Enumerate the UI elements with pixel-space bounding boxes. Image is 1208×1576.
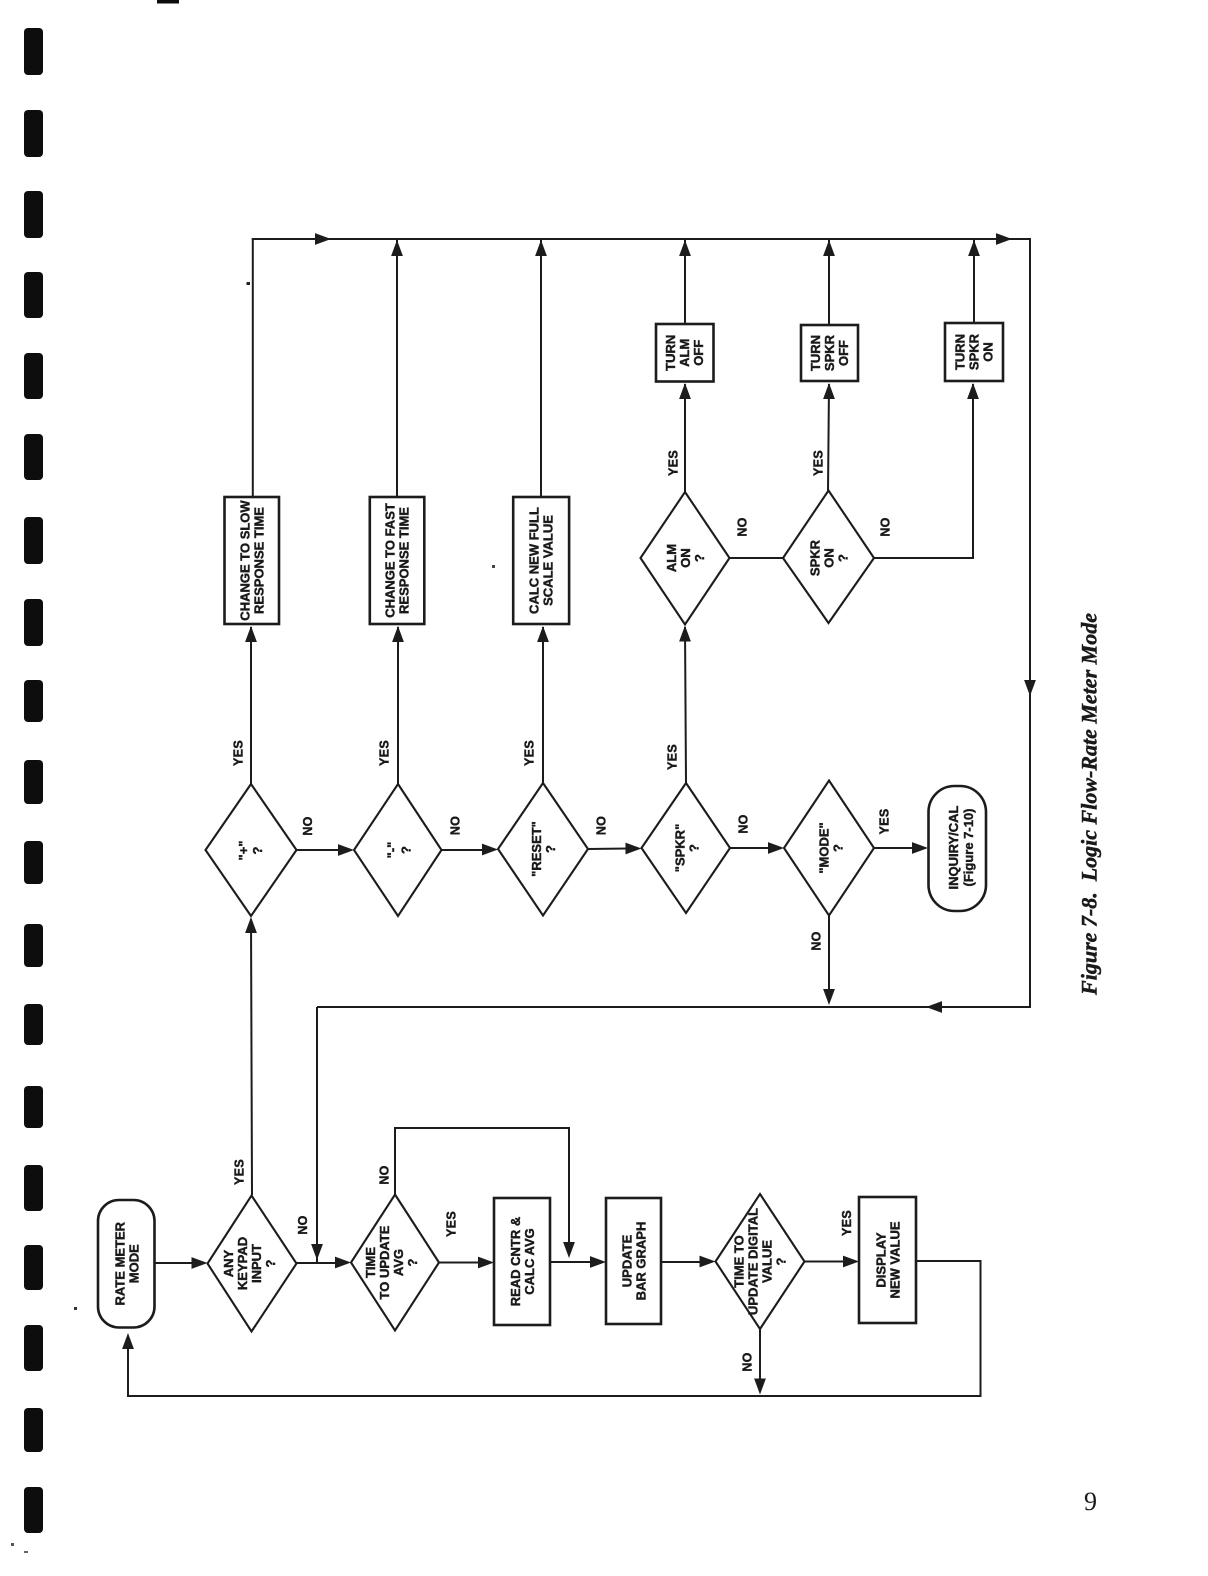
wire: YES from "+" diamond to CHANGE TO SLOW box [250,627,252,784]
label YES (minus diamond) [378,740,392,766]
svg-text:OFF: OFF [836,340,851,366]
svg-text:READ CNTR &: READ CNTR & [508,1217,523,1307]
svg-text:TO UPDATE: TO UPDATE [377,1225,392,1299]
svg-text:YES: YES [666,744,680,770]
svg-text:?: ? [399,846,414,854]
label NO (any keypad) [296,1215,310,1234]
svg-text:TURN: TURN [953,334,968,370]
process box CHANGE TO FAST RESPONSE TIME [370,497,425,624]
svg-text:RATE METER: RATE METER [113,1221,128,1305]
terminator INQUIRY/CAL (Figure 7-10) [929,786,987,911]
wire: YES from SPKR diamond up to ALM ON diamond [685,627,686,783]
svg-text:ANY: ANY [221,1249,236,1277]
wire: YES from SPKR ON diamond to TURN SPKR OFF box [828,384,829,492]
svg-text:TURN: TURN [808,335,823,371]
label NO (mode diamond) [810,931,824,950]
svg-text:YES: YES [523,740,537,766]
svg-text:RESPONSE TIME: RESPONSE TIME [251,507,266,614]
svg-text:OFF: OFF [691,340,706,366]
svg-text:SPKR: SPKR [808,539,823,576]
arrowhead up into ALM ON diamond [679,626,691,642]
svg-text:CALC AVG: CALC AVG [522,1228,537,1294]
wire: NO from SPKR ON diamond right then up to TURN SPKR ON box [874,384,973,558]
arrowhead up into "+" diamond [245,917,257,933]
arrowhead right into SPKR diamond [626,843,642,855]
svg-text:9: 9 [1084,1487,1097,1516]
arrowhead right into TIME TO UPDATE DIGITAL VALUE [700,1256,716,1268]
svg-text:INQUIRY/CAL: INQUIRY/CAL [946,805,961,889]
arrowhead up into top collector from CALC box [535,240,547,256]
arrowhead right into DISPLAY NEW VALUE [843,1256,859,1268]
process box UPDATE BAR GRAPH [606,1198,661,1324]
svg-text:?: ? [687,844,702,852]
arrowhead down at keypad-no junction [311,1244,323,1260]
svg-text:INPUT: INPUT [249,1244,264,1283]
arrowhead right into UPDATE BAR GRAPH [590,1256,606,1268]
svg-text:YES: YES [840,1210,854,1236]
wire: NO from ANY KEYPAD diamond to TIME TO UPDATE AVG diamond [297,1262,338,1264]
decision diamond "MODE"? [784,781,874,916]
svg-text:NO: NO [296,1215,310,1234]
wire: CHANGE TO SLOW box top to top collector [252,238,254,497]
scan speck left of RATE METER MODE [74,1307,77,1310]
arrowhead right into RESET diamond [482,844,498,856]
label NO (alm on diamond) [736,517,750,536]
svg-text:"+": "+" [236,841,251,861]
svg-text:"-": "-" [385,842,400,859]
label NO (spkr on diamond) [879,517,893,536]
svg-text:CALC NEW FULL: CALC NEW FULL [527,507,542,614]
arrowhead up into top collector from FAST box [391,240,403,256]
svg-text:Figure 7-8. Logic Flow-Rate M: Figure 7-8. Logic Flow-Rate Meter Mode [1077,613,1102,996]
wire: YES from TIME TO UPDATE AVG to READ CNTR box [439,1262,480,1264]
svg-text:NO: NO [595,816,609,835]
svg-text:NO: NO [378,1165,392,1184]
wire: NO from "+" diamond to "-" diamond [297,849,341,851]
svg-text:"SPKR": "SPKR" [673,824,688,872]
svg-text:CHANGE TO FAST: CHANGE TO FAST [383,503,398,618]
svg-text:SPKR: SPKR [967,333,982,370]
label NO (spkr diamond) [737,814,751,833]
svg-text:MODE: MODE [127,1244,142,1283]
wire: YES from ALM ON diamond to TURN ALM OFF box [684,384,686,492]
svg-text:?: ? [836,554,851,562]
arrowhead right into TIME TO UPDATE AVG [335,1257,351,1269]
svg-text:?: ? [692,554,707,562]
svg-text:NEW VALUE: NEW VALUE [888,1221,903,1298]
terminator RATE METER MODE [98,1200,155,1328]
svg-text:NO: NO [449,816,463,835]
arrowhead down into lower collector [823,989,835,1005]
arrowhead left on lower collector [926,1001,942,1013]
svg-text:?: ? [405,1258,420,1266]
wire: READ CNTR box to UPDATE BAR GRAPH box [550,1261,592,1263]
wire: YES from "-" diamond to CHANGE TO FAST box [397,627,399,784]
wire: NO from SPKR diamond to MODE diamond [730,847,770,849]
svg-text:YES: YES [445,1211,459,1237]
svg-text:UPDATE: UPDATE [620,1234,635,1287]
svg-text:KEYPAD: KEYPAD [235,1237,250,1290]
label YES (reset diamond) [523,740,537,766]
caption Figure 7-8. Logic Flow-Rate Meter Mode [1077,613,1102,996]
svg-text:TIME TO: TIME TO [732,1235,747,1287]
wire: YES from MODE diamond to INQUIRY/CAL [874,847,914,849]
wire: TURN ALM OFF box top to top collector [684,240,686,324]
wire: YES from RESET diamond to CALC box [542,627,544,783]
arrowhead up into top collector from TURN ALM OFF [679,240,691,256]
scan specks bottom left [11,1543,14,1546]
label YES (time to update digital value) [840,1210,854,1236]
arrowhead right into "-" diamond [338,844,354,856]
arrowhead right into READ CNTR box [478,1257,494,1269]
arrowhead up into RATE METER MODE bottom [122,1333,134,1349]
scan mark top edge [157,0,179,4]
process box TURN SPKR OFF [801,325,858,381]
wire: return from DISPLAY NEW VALUE right, down, left along bottom, up into RATE METER MODE [128,1261,981,1396]
label NO (time to update avg) [378,1165,392,1184]
wire: NO from ALM ON diamond to SPKR ON diamond [730,557,784,559]
label NO (plus diamond) [301,816,315,835]
decision diamond SPKR ON? [783,491,874,624]
svg-text:TIME: TIME [363,1247,378,1278]
arrowhead right into ANY KEYPAD diamond [192,1257,208,1269]
decision diamond TIME TO UPDATE DIGITAL VALUE? [716,1194,805,1329]
svg-text:CHANGE TO SLOW: CHANGE TO SLOW [237,500,252,621]
svg-text:RESPONSE TIME: RESPONSE TIME [397,507,412,614]
wire: UPDATE BAR GRAPH to TIME TO UPDATE DIGITAL VALUE diamond [661,1261,702,1263]
svg-text:ALM: ALM [664,544,679,572]
svg-text:YES: YES [233,1159,247,1185]
process box CALC NEW FULL SCALE VALUE [513,497,569,624]
process box CHANGE TO SLOW RESPONSE TIME [225,497,280,624]
label YES (spkr on diamond) [812,450,826,476]
svg-text:YES: YES [232,740,246,766]
svg-text:YES: YES [878,809,892,835]
svg-text:?: ? [543,845,558,853]
svg-text:YES: YES [378,740,392,766]
arrowhead right into MODE diamond [768,842,784,854]
label NO (minus diamond) [449,816,463,835]
decision diamond ANY KEYPAD INPUT? [208,1196,297,1332]
label YES (time to update avg) [445,1211,459,1237]
arrowhead right into INQUIRY/CAL [912,842,928,854]
svg-text:"MODE": "MODE" [817,822,832,873]
svg-text:BAR GRAPH: BAR GRAPH [634,1222,649,1301]
svg-text:(Figure 7-10): (Figure 7-10) [961,808,976,886]
svg-text:NO: NO [879,517,893,536]
process box TURN ALM OFF [656,324,714,382]
svg-text:?: ? [831,844,846,852]
svg-text:SCALE VALUE: SCALE VALUE [541,515,556,606]
svg-text:ON: ON [678,548,693,568]
decision diamond TIME TO UPDATE AVG? [351,1195,439,1331]
wire: TURN SPKR OFF box top to top collector [828,240,830,325]
wire: NO from TIME TO UPDATE DIGITAL VALUE down to return line [759,1329,761,1382]
label NO (reset diamond) [595,816,609,835]
svg-text:SPKR: SPKR [822,334,837,371]
process box READ CNTR & CALC AVG [494,1198,550,1325]
svg-text:NO: NO [736,517,750,536]
wire: descender from lower collector to keypad-no junction [316,1007,318,1262]
wire: lower collector horizontal line [317,1006,1030,1008]
arrowhead right on top collector (right end) [996,233,1012,245]
wire: NO loop from TIME TO UPDATE AVG over READ CNTR box [395,1128,569,1245]
decision diamond "+"? [206,784,297,916]
svg-text:ALM: ALM [677,339,692,367]
svg-text:?: ? [774,1257,789,1265]
arrowhead up into TURN SPKR ON box [967,383,979,399]
svg-text:NO: NO [810,931,824,950]
arrowhead down into line before UPDATE BAR GRAPH [563,1242,575,1258]
decision diamond "-"? [354,784,442,916]
arrowhead up into CHANGE TO SLOW box [245,626,257,642]
wire: RATE METER MODE to ANY KEYPAD diamond [155,1262,195,1264]
arrowhead up into top collector from TURN SPKR OFF [823,240,835,256]
svg-text:TURN: TURN [663,335,678,371]
svg-text:YES: YES [812,450,826,476]
binder hole marks column [24,28,43,1533]
process box DISPLAY NEW VALUE [859,1197,916,1323]
wire: CHANGE TO FAST box top to top collector [396,240,398,497]
svg-text:"RESET": "RESET" [529,821,544,877]
wire: NO from "-" diamond to RESET diamond [442,849,485,851]
arrowhead up into TURN SPKR OFF box [823,383,835,399]
svg-text:NO: NO [301,816,315,835]
arrowhead up into top collector from TURN SPKR ON [968,240,980,256]
decision diamond "RESET"? [498,783,588,916]
label YES (spkr diamond) [666,744,680,770]
svg-text:AVG: AVG [391,1249,406,1276]
wire: NO from MODE diamond down to lower collector [828,916,830,993]
svg-text:ON: ON [822,548,837,568]
label YES (plus diamond) [232,740,246,766]
svg-text:YES: YES [667,450,681,476]
label YES (mode diamond) [878,809,892,835]
label YES (alm on diamond) [667,450,681,476]
wire: TURN SPKR ON box top to top collector [973,240,975,323]
label NO (time to update digital value) [741,1352,755,1371]
wire: top collector horizontal line [252,238,1030,240]
svg-text:NO: NO [741,1352,755,1371]
svg-text:?: ? [250,846,265,854]
svg-text:NO: NO [737,814,751,833]
arrowhead up into CHANGE TO FAST box [392,626,404,642]
arrowhead right on top collector (left end) [315,233,331,245]
label YES (any keypad) [233,1159,247,1185]
svg-text:UPDATE DIGITAL: UPDATE DIGITAL [746,1208,761,1315]
decision diamond ALM ON? [641,492,730,625]
wire: YES from TIME TO UPDATE DIGITAL VALUE to DISPLAY NEW VALUE box [805,1261,846,1263]
svg-text:ON: ON [981,342,996,362]
svg-text:?: ? [263,1259,278,1267]
arrowhead down into return line [754,1379,766,1395]
arrowhead down on right collector [1024,680,1036,696]
wire: CALC box top to top collector [540,240,542,497]
wire: YES from ANY KEYPAD diamond up to "+" diamond [251,919,252,1195]
svg-text:DISPLAY: DISPLAY [874,1232,889,1287]
process box TURN SPKR ON [945,323,1003,381]
wire: NO from RESET diamond to SPKR diamond [588,848,628,851]
svg-text:VALUE: VALUE [760,1240,775,1283]
wire: right collector vertical line [1029,238,1031,1008]
arrowhead up into CALC box [537,626,549,642]
decision diamond "SPKR"? [642,783,731,913]
arrowhead up into TURN ALM OFF box [679,383,691,399]
